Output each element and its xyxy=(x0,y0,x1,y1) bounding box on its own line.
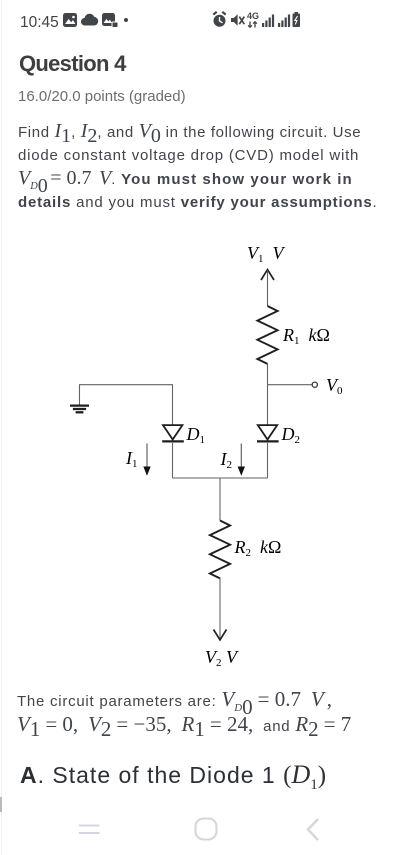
4G icon xyxy=(247,11,259,28)
wire R1 bottom to D2 xyxy=(267,364,269,426)
diode D2 xyxy=(257,425,279,441)
current arrow I2 xyxy=(238,444,245,476)
wire center stem to R2 xyxy=(219,478,221,521)
wire V1 arrow shaft xyxy=(267,271,269,307)
svg-text:D2: D2 xyxy=(281,424,301,446)
node V0 terminal circle xyxy=(312,382,317,387)
svg-text:I2: I2 xyxy=(220,449,233,471)
resistor R2 xyxy=(210,521,230,579)
wire D1 to bottom rail xyxy=(172,443,174,478)
wire ground to D1 branch xyxy=(80,385,173,425)
arrow to V1 (up) xyxy=(261,270,274,280)
arrow to V2 (down) xyxy=(214,630,227,640)
section heading A xyxy=(20,760,326,790)
wire D2 to bottom rail xyxy=(267,443,269,478)
heading xyxy=(19,51,126,77)
picture icon xyxy=(63,13,77,27)
problem paragraph xyxy=(18,120,398,215)
svg-text:V1 V: V1 V xyxy=(247,243,286,265)
svg-text:R1 kΩ: R1 kΩ xyxy=(282,325,330,347)
svg-text:R2 kΩ: R2 kΩ xyxy=(234,537,282,559)
mute / vibrate icon xyxy=(231,14,244,26)
bottom navigation xyxy=(0,795,405,855)
current arrow I1 xyxy=(143,444,150,476)
svg-text:D1: D1 xyxy=(186,424,206,446)
circuit parameters text xyxy=(17,688,402,738)
status bar xyxy=(20,14,59,32)
dot xyxy=(124,18,128,22)
svg-text:4G: 4G xyxy=(247,11,259,21)
svg-text:I1: I1 xyxy=(125,448,138,470)
svg-text:V2 V: V2 V xyxy=(205,647,239,669)
left edge mark xyxy=(0,797,2,812)
wire bottom rail xyxy=(173,477,268,479)
diode D1 xyxy=(162,425,184,441)
signal bars 1 xyxy=(262,15,274,28)
alarm clock xyxy=(213,12,225,27)
svg-text:V0: V0 xyxy=(326,375,343,397)
signal bars 2 xyxy=(278,15,290,28)
resistor R1 xyxy=(257,306,277,364)
wire to V0 terminal xyxy=(268,384,313,386)
battery xyxy=(293,12,301,27)
ground xyxy=(70,406,89,413)
cloud icon xyxy=(81,14,98,26)
circuit schematic xyxy=(0,235,405,695)
photos icon with badge xyxy=(102,13,115,26)
wire R2 to V2 arrow xyxy=(219,578,221,639)
